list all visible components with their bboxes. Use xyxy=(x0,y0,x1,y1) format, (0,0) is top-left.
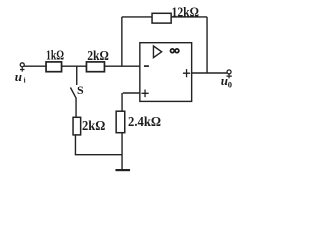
svg-text:2kΩ: 2kΩ xyxy=(87,49,109,64)
svg-text:i: i xyxy=(24,77,26,85)
svg-text:2kΩ: 2kΩ xyxy=(82,119,105,134)
svg-text:S: S xyxy=(77,83,84,97)
svg-text:12kΩ: 12kΩ xyxy=(172,5,200,20)
svg-text:2.4kΩ: 2.4kΩ xyxy=(128,115,161,130)
svg-text:1kΩ: 1kΩ xyxy=(46,49,64,64)
svg-text:0: 0 xyxy=(228,80,232,90)
svg-text:u: u xyxy=(15,69,22,84)
